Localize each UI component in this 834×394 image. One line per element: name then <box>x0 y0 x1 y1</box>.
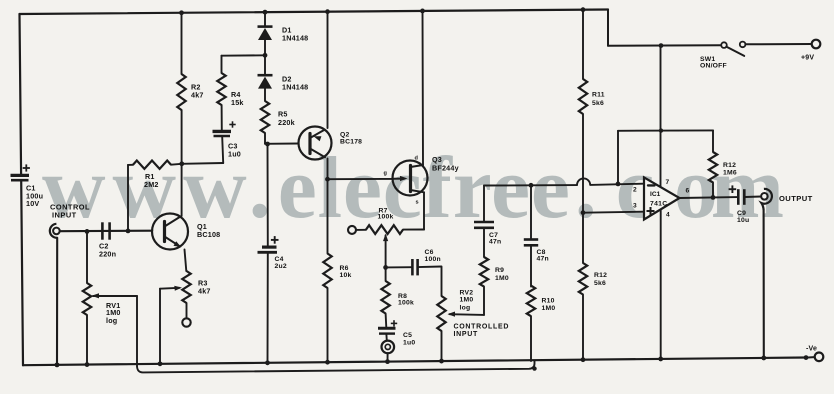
svg-text:log: log <box>460 304 471 311</box>
wire pin4 supply column <box>660 210 662 360</box>
wire D-junction to R4 <box>222 54 266 56</box>
wire hop to pin2 <box>590 184 643 185</box>
wire C6 to RV2 <box>418 266 442 269</box>
svg-text:220k: 220k <box>278 118 295 127</box>
node junction bottom rail x387 <box>385 359 390 364</box>
wire R7 wiper <box>383 234 388 242</box>
resistor R8 <box>381 281 389 314</box>
svg-text:6: 6 <box>686 187 690 194</box>
svg-text:10V: 10V <box>26 199 39 208</box>
transistor Q3 channel bar <box>409 166 412 192</box>
switch SW1 lever <box>726 47 744 56</box>
potentiometer RV1 <box>83 283 91 315</box>
svg-text:BC178: BC178 <box>340 139 362 146</box>
svg-text:+9V: +9V <box>801 55 814 62</box>
node junction top rail R2 <box>179 10 184 15</box>
wire R3 bottom lead <box>186 303 188 318</box>
wire RV2 wiper arm <box>450 313 485 316</box>
node junction bottom rail x57 <box>55 362 60 367</box>
watermark <box>42 145 785 233</box>
svg-text:R12: R12 <box>594 272 607 279</box>
wire C4 bottom lead <box>267 253 269 362</box>
node junction C8 tap <box>529 183 534 188</box>
wire C4 top lead <box>267 144 269 246</box>
wire C5 terminal to rail <box>387 353 389 362</box>
capacitor C4 <box>262 246 277 249</box>
wire C9 to output jack <box>745 195 761 198</box>
wire -Ve stub <box>804 355 809 360</box>
potentiometer RV2 <box>437 296 445 331</box>
wire input to C2 to Q1 base <box>60 230 152 233</box>
svg-text:s: s <box>416 200 419 206</box>
svg-text:1M6: 1M6 <box>723 169 737 176</box>
node junction R7 wiper C6 R8 <box>383 265 388 270</box>
wire top supply rail <box>20 10 609 15</box>
wire Q1 emitter column <box>185 250 187 272</box>
node junction D1 D2 R4 <box>263 53 268 58</box>
node junction R1 base <box>126 229 131 234</box>
wire C3 bottom lead <box>222 137 223 163</box>
transistor Q3 source lead <box>411 190 425 192</box>
node junction input RV1 <box>85 229 90 234</box>
svg-text:CONTROLLED: CONTROLLED <box>454 323 510 330</box>
svg-text:2M2: 2M2 <box>144 180 159 189</box>
transistor Q2 emitter lead <box>310 130 325 138</box>
transistor Q1 emitter lead <box>165 237 180 247</box>
node junction feedback tap <box>616 182 621 187</box>
wire R12 1M6 to output node <box>712 183 714 198</box>
svg-text:R11: R11 <box>592 92 605 99</box>
resistor R10 <box>527 286 535 317</box>
node junction divider pin3 <box>581 210 586 215</box>
svg-text:15k: 15k <box>231 98 244 107</box>
capacitor C9 <box>737 189 740 205</box>
wire second bottom bus <box>137 360 535 372</box>
svg-text:BC108: BC108 <box>197 230 220 239</box>
wire top rail right corner down to switch line <box>607 10 609 46</box>
wire R9 to C7 <box>483 228 485 257</box>
node junction top rail Q2 emitter <box>325 9 330 14</box>
wire feedback riser <box>617 131 619 184</box>
svg-text:10u: 10u <box>737 217 749 224</box>
wire R4 to C3 <box>221 105 223 131</box>
potentiometer R7 <box>366 225 403 234</box>
svg-text:2: 2 <box>633 187 637 194</box>
node junction Q2 collector <box>325 177 330 182</box>
wire R12 bottom lead <box>582 295 584 360</box>
svg-text:IC1: IC1 <box>650 191 661 198</box>
terminal R7 left <box>348 226 356 234</box>
wire Q3 drain to rail <box>422 10 425 165</box>
svg-text:5k6: 5k6 <box>592 100 604 107</box>
svg-text:-Ve: -Ve <box>806 346 817 353</box>
svg-text:1N4148: 1N4148 <box>282 83 308 92</box>
wire feedback top <box>618 129 713 131</box>
wire junction to C6 <box>386 266 412 268</box>
transistor Q3 drain lead <box>411 165 424 167</box>
svg-text:1u0: 1u0 <box>403 339 415 346</box>
svg-text:d: d <box>415 156 419 162</box>
wire Q3 source to R7 <box>403 229 424 231</box>
wire Q2 emitter to rail <box>327 11 329 128</box>
node junction bottom rail x160 <box>158 361 163 366</box>
svg-text:2u2: 2u2 <box>275 263 287 270</box>
svg-text:1M0: 1M0 <box>495 275 509 282</box>
wire R4 top lead <box>221 56 223 73</box>
wire R1 left drop <box>127 165 129 231</box>
wire R11 top lead <box>582 10 584 79</box>
wire R7 left lead <box>356 229 366 231</box>
terminal C5 bottom <box>382 341 395 354</box>
node junction bottom rail x267 <box>265 360 270 365</box>
wire C7 top lead <box>483 186 485 222</box>
svg-text:g: g <box>384 171 388 177</box>
wire R3 wiper arm <box>160 287 180 290</box>
resistor R3 <box>182 271 190 303</box>
capacitor C8 <box>524 238 538 241</box>
wire R6 bottom lead <box>327 288 329 362</box>
node junction bottom rail x327 <box>325 360 330 365</box>
svg-text:47n: 47n <box>537 256 549 263</box>
node junction bottom rail x87 <box>85 362 90 367</box>
resistor R11 <box>579 79 587 114</box>
wire Q2 collector column <box>327 159 329 180</box>
wire R5 to Q2 base <box>264 133 266 144</box>
svg-text:100k: 100k <box>398 300 414 307</box>
svg-text:C6: C6 <box>425 249 434 256</box>
node junction bottom rail x583 <box>581 357 586 362</box>
transistor Q3 body <box>393 161 428 196</box>
wire R10 bottom lead <box>530 316 532 361</box>
svg-text:3: 3 <box>633 203 637 210</box>
resistor R6 <box>323 254 331 289</box>
terminal OUTPUT jack <box>761 193 768 200</box>
svg-text:741C: 741C <box>650 201 667 208</box>
svg-text:1N4148: 1N4148 <box>282 34 308 43</box>
svg-text:4k7: 4k7 <box>198 287 211 296</box>
resistor R9 <box>480 257 488 287</box>
svg-text:4k7: 4k7 <box>191 91 204 100</box>
wire left rail upper <box>20 14 22 175</box>
wire Q3 source column <box>423 192 425 229</box>
capacitor C3 <box>213 130 232 133</box>
wire feedback to R12 1M6 <box>712 130 714 152</box>
svg-text:INPUT: INPUT <box>52 211 77 220</box>
svg-text:47n: 47n <box>489 239 501 246</box>
node junction second bus end <box>532 366 536 370</box>
transistor Q2 base bar <box>308 134 311 154</box>
switch SW1 left contact <box>721 42 727 48</box>
svg-text:R10: R10 <box>542 298 555 305</box>
wire RV1 wiper drop <box>136 296 138 366</box>
node junction R1 C3 R2 <box>179 161 184 166</box>
wire Q2 collector to R6 <box>327 179 329 253</box>
node junction top rail R11 <box>581 7 586 12</box>
svg-text:220n: 220n <box>99 250 116 259</box>
svg-text:100n: 100n <box>425 256 441 263</box>
node junction top rail D1 <box>263 10 268 15</box>
svg-text:BF244y: BF244y <box>432 164 459 173</box>
wire C8 to R10 <box>530 246 532 287</box>
resistor R2 <box>177 74 185 110</box>
svg-text:R12: R12 <box>723 162 736 169</box>
svg-text:1M0: 1M0 <box>542 305 556 312</box>
svg-text:log: log <box>106 316 117 325</box>
terminal -Ve <box>815 353 824 362</box>
svg-text:1u0: 1u0 <box>228 150 241 159</box>
wire D1 top lead <box>264 11 266 26</box>
svg-text:5k6: 5k6 <box>594 280 606 287</box>
svg-text:1M0: 1M0 <box>460 297 474 304</box>
transistor Q1 body <box>152 214 188 250</box>
wire RV2 wiper to R9 <box>483 287 485 315</box>
svg-text:7: 7 <box>666 179 670 186</box>
wire input jack ground <box>56 238 58 365</box>
wire RV1 wiper line <box>93 295 137 297</box>
resistor R12 5k6 <box>579 263 587 295</box>
node junction top rail Q3 drain <box>420 9 425 14</box>
wire junction to C3 <box>182 162 223 165</box>
svg-text:INPUT: INPUT <box>454 331 479 338</box>
wire bottom rail <box>23 358 806 366</box>
transistor Q1 collector lead <box>165 217 181 227</box>
wire R2 to Q1 collector column <box>181 110 183 216</box>
capacitor C2 <box>101 222 104 239</box>
wire C8 top lead <box>530 185 532 239</box>
wire RV2 top lead <box>441 267 443 296</box>
node junction C4 tap <box>265 142 270 147</box>
op-amp IC1 plus <box>647 210 655 212</box>
wire R11 to pin3 node <box>582 114 584 213</box>
wire SW1 to +9V terminal <box>745 43 811 45</box>
wire R8 top lead <box>385 267 387 281</box>
wire R2 top lead <box>181 12 183 74</box>
wire output jack ground <box>763 210 765 358</box>
capacitor C1 <box>11 174 30 177</box>
wire Q2 to Q3 gate <box>328 178 393 180</box>
terminal R3 bottom <box>182 318 190 326</box>
wire pin3 connection <box>583 212 643 213</box>
wire RV1 top lead <box>86 231 88 283</box>
resistor R5 <box>261 101 269 133</box>
svg-text:RV2: RV2 <box>460 290 474 297</box>
resistor R12 1M6 <box>709 152 717 183</box>
wire switch feed segment <box>608 44 721 47</box>
wire RV1 bottom lead <box>86 315 88 364</box>
transistor Q2 collector lead <box>310 149 325 158</box>
svg-text:4: 4 <box>666 211 670 218</box>
wire R8 to C5 <box>385 314 388 328</box>
svg-text:10k: 10k <box>340 272 352 279</box>
wire D2 top lead <box>264 55 266 74</box>
diode D2 <box>258 74 273 77</box>
node junction bottom rail x660 <box>658 357 663 362</box>
resistor R4 <box>217 73 225 105</box>
svg-text:R9: R9 <box>495 267 504 274</box>
wire C7 to hop segment <box>484 184 577 186</box>
node junction bottom rail x763 <box>761 356 766 361</box>
capacitor C5 <box>378 327 396 330</box>
node junction bottom rail x441 <box>439 359 444 364</box>
wire op-amp output <box>680 196 738 199</box>
op-amp IC1 minus <box>648 184 655 186</box>
transistor Q2 body <box>299 127 332 160</box>
wire R3 wiper drop <box>159 289 161 364</box>
transistor Q1 base bar <box>163 222 166 242</box>
wire divider to R12 <box>582 213 584 263</box>
node junction output feedback <box>711 195 716 200</box>
diode D1 <box>258 25 273 28</box>
resistor R1 <box>133 161 171 169</box>
capacitor C6 <box>411 259 414 275</box>
terminal +9V <box>812 40 821 49</box>
wire pin7 supply column <box>660 46 662 187</box>
svg-text:C5: C5 <box>403 332 412 339</box>
svg-text:C4: C4 <box>275 256 284 263</box>
terminal CONTROL INPUT jack <box>53 228 60 235</box>
wire left rail lower <box>21 181 23 366</box>
capacitor C7 <box>474 221 494 224</box>
node crossing blob pin7 line <box>659 128 663 132</box>
switch SW1 right contact <box>740 42 746 48</box>
svg-text:100k: 100k <box>378 214 394 221</box>
node junction switch line pin7 <box>659 43 664 48</box>
wire hop over divider <box>577 178 590 185</box>
wire C5 to terminal <box>385 334 387 340</box>
transistor Q3 gate lead <box>393 178 405 180</box>
wire RV2 bottom lead <box>441 331 443 361</box>
arrowhead RV1 wiper <box>92 293 100 298</box>
svg-text:OUTPUT: OUTPUT <box>779 194 813 203</box>
op-amp IC1 body <box>644 177 680 219</box>
svg-text:ON/OFF: ON/OFF <box>700 63 727 70</box>
